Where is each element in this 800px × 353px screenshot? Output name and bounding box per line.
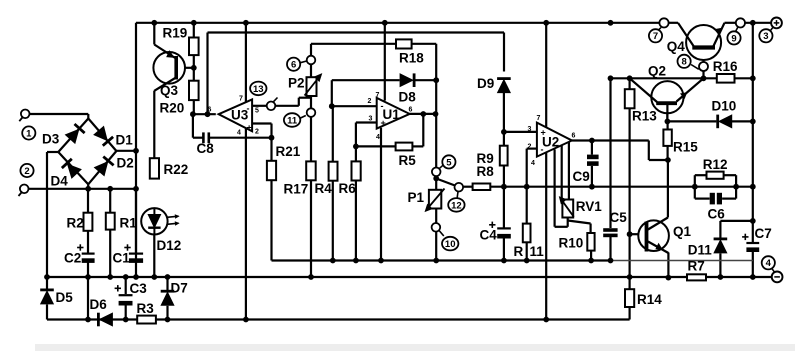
svg-text:R22: R22: [164, 162, 189, 177]
svg-text:9: 9: [731, 33, 736, 44]
svg-text:R21: R21: [276, 144, 301, 159]
svg-text:D10: D10: [712, 99, 737, 114]
svg-text:10: 10: [445, 239, 456, 250]
svg-text:3: 3: [369, 116, 373, 123]
svg-text:D3: D3: [42, 132, 60, 147]
svg-text:7: 7: [376, 92, 380, 99]
svg-text:D8: D8: [399, 90, 417, 105]
svg-text:R5: R5: [399, 153, 417, 168]
svg-text:2: 2: [528, 144, 532, 151]
svg-text:D6: D6: [90, 297, 108, 312]
svg-text:5: 5: [255, 108, 259, 115]
svg-text:4: 4: [376, 134, 380, 141]
svg-text:C8: C8: [197, 141, 215, 156]
svg-text:R18: R18: [399, 51, 424, 66]
svg-text:R13: R13: [632, 109, 657, 124]
svg-text:Q1: Q1: [673, 224, 692, 239]
svg-text:2: 2: [368, 98, 372, 105]
svg-text:P1: P1: [408, 190, 425, 205]
svg-text:P2: P2: [288, 76, 305, 91]
svg-text:D11: D11: [688, 243, 713, 258]
svg-text:R: R: [514, 244, 524, 259]
svg-text:1: 1: [26, 128, 32, 139]
svg-text:R1: R1: [120, 216, 138, 231]
svg-text:D2: D2: [117, 156, 134, 171]
svg-text:D9: D9: [477, 76, 494, 91]
svg-text:RV1: RV1: [576, 199, 603, 214]
svg-text:+: +: [541, 128, 546, 138]
svg-text:C1: C1: [113, 251, 131, 266]
svg-text:Q3: Q3: [160, 83, 179, 98]
svg-text:C6: C6: [708, 207, 726, 222]
svg-text:R7: R7: [688, 258, 705, 273]
svg-text:D7: D7: [171, 281, 188, 296]
svg-text:7: 7: [653, 31, 658, 42]
svg-text:11: 11: [530, 244, 545, 259]
svg-text:-: -: [541, 145, 544, 155]
svg-text:+: +: [381, 118, 386, 128]
svg-text:2: 2: [24, 166, 29, 177]
svg-text:3: 3: [763, 31, 768, 42]
svg-text:R3: R3: [137, 301, 155, 316]
svg-text:13: 13: [253, 84, 264, 95]
svg-text:R16: R16: [713, 59, 738, 74]
svg-text:6: 6: [208, 107, 212, 114]
svg-text:7: 7: [239, 96, 243, 103]
svg-text:R6: R6: [339, 181, 357, 196]
svg-text:4: 4: [766, 258, 772, 269]
svg-text:8: 8: [681, 57, 686, 68]
svg-text:C5: C5: [610, 210, 628, 225]
svg-text:5: 5: [446, 157, 452, 168]
svg-text:+: +: [247, 123, 252, 133]
svg-text:D12: D12: [157, 238, 182, 253]
svg-text:R2: R2: [67, 216, 84, 231]
svg-text:6: 6: [291, 60, 296, 71]
svg-text:R8: R8: [477, 164, 495, 179]
svg-text:7: 7: [537, 115, 541, 122]
svg-text:C3: C3: [130, 281, 148, 296]
svg-text:R12: R12: [703, 157, 728, 172]
svg-text:2: 2: [255, 129, 259, 136]
svg-text:R15: R15: [673, 140, 698, 155]
svg-text:C9: C9: [573, 169, 590, 184]
svg-text:R10: R10: [559, 235, 584, 250]
svg-text:4: 4: [531, 160, 535, 167]
svg-text:11: 11: [287, 115, 298, 126]
svg-text:D1: D1: [116, 133, 134, 148]
svg-text:6: 6: [572, 133, 576, 140]
svg-text:3: 3: [528, 126, 532, 133]
svg-text:R17: R17: [284, 182, 309, 197]
svg-text:R4: R4: [315, 181, 333, 196]
svg-text:-: -: [247, 104, 250, 114]
svg-text:C7: C7: [755, 226, 772, 241]
svg-text:12: 12: [451, 200, 462, 211]
svg-text:D4: D4: [51, 174, 69, 189]
svg-text:Q4: Q4: [667, 39, 686, 54]
svg-text:-: -: [381, 101, 384, 111]
svg-text:4: 4: [237, 130, 241, 137]
svg-text:R19: R19: [163, 26, 188, 41]
svg-text:C4: C4: [480, 228, 498, 243]
svg-text:6: 6: [409, 107, 413, 114]
svg-text:R14: R14: [637, 292, 662, 307]
svg-text:D5: D5: [56, 290, 74, 305]
svg-text:C2: C2: [64, 251, 81, 266]
svg-text:Q2: Q2: [648, 64, 666, 79]
svg-text:R20: R20: [160, 101, 185, 116]
